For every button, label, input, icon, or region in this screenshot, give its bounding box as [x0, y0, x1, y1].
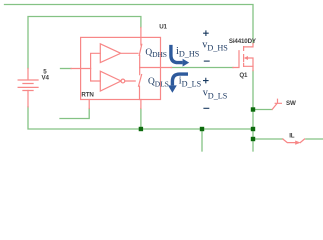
junction ground stub on rail: [200, 127, 204, 131]
svg-text:U1: U1: [159, 23, 167, 30]
wire input stub to U1 left pin: [61, 68, 72, 70]
wire gate net: [172, 67, 234, 69]
wire SW vertical: [252, 71, 254, 151]
voltage source V4 plates: [18, 80, 38, 91]
junction rail end: [251, 127, 255, 131]
annotation minus top: [204, 60, 210, 62]
arrow iD_LS: [172, 74, 188, 85]
svg-text:V4: V4: [42, 75, 50, 82]
junction SW: [251, 107, 255, 111]
probe IL arrowhead: [295, 141, 300, 145]
voltage source V4 pins: [27, 69, 29, 107]
wire ground stub down: [201, 129, 203, 151]
svg-text:QDHS: QDHS: [145, 48, 167, 59]
wire RTN elbow: [60, 109, 89, 119]
probe SW: [272, 99, 281, 109]
transistor Q1 body arrow line: [246, 58, 253, 66]
svg-text:SW: SW: [286, 100, 296, 107]
transistor Q1 body arrowhead: [244, 56, 248, 60]
transistor Q1 source tab: [244, 66, 253, 70]
transistor Q1 channel: [243, 47, 245, 67]
junction U1 bottom on rail: [139, 127, 143, 131]
wire battery minus to ground rail: [28, 107, 253, 129]
U1 left pin: [71, 68, 91, 70]
wire battery plus loop to U1 top pin: [28, 17, 141, 69]
U1 bottom pin: [140, 100, 142, 109]
probe IL detour: [283, 139, 305, 143]
svg-text:Si4410DY: Si4410DY: [229, 38, 257, 45]
transistor Q1 gate: [233, 51, 239, 68]
junction IL: [251, 137, 255, 141]
svg-text:Q1: Q1: [239, 72, 248, 79]
switch QDLS: [139, 68, 142, 100]
U1 right pin: [140, 67, 172, 69]
wire IL left segment: [253, 138, 283, 140]
U1 top pin: [140, 28, 142, 46]
transistor Q1 drain tab: [244, 44, 253, 47]
svg-text:IL: IL: [289, 133, 295, 140]
buffer A2 inverting: [100, 71, 135, 91]
input splitter: [91, 53, 101, 81]
wire SW probe stub: [253, 109, 272, 111]
annotation minus bottom: [203, 107, 209, 109]
annotation plus top: [203, 30, 209, 36]
op-amp U1 box: [81, 37, 161, 99]
annotation plus bottom: [203, 78, 209, 84]
U1 RTN pin: [88, 100, 90, 109]
svg-text:QDLS: QDLS: [148, 77, 169, 88]
svg-text:RTN: RTN: [81, 92, 94, 99]
wire IL right segment: [306, 138, 323, 140]
wire U1 bottom pin to rail: [140, 109, 142, 130]
wire top rail: [5, 5, 254, 44]
switch QDHS: [139, 44, 142, 67]
buffer A2 bubble: [121, 79, 125, 83]
arrow iD_HS: [171, 45, 183, 63]
buffer A1: [100, 44, 138, 63]
